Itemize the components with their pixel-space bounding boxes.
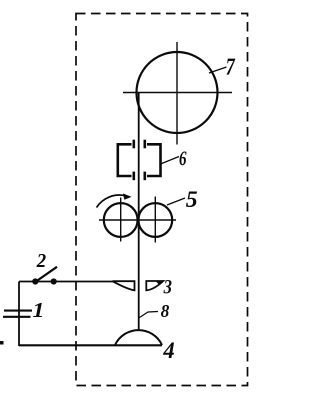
- wire strip 8 (vertical line): [138, 93, 140, 332]
- contact shoe 3 right wedge: [146, 281, 163, 290]
- label 8: [161, 305, 169, 317]
- capacitor 1 top plate: [4, 310, 32, 312]
- label 3: [164, 280, 172, 293]
- leader line to label 6: [161, 157, 180, 165]
- left roller vertical centerline: [120, 198, 122, 242]
- label 2: [37, 254, 46, 267]
- heater bracket 6 left: [118, 140, 134, 181]
- heater bracket 6 right: [145, 140, 161, 181]
- switch 2 left contact dot: [32, 278, 38, 284]
- capacitor 1 bottom plate: [3, 316, 31, 318]
- right roller vertical centerline: [154, 197, 156, 243]
- bottom wire / baseline: [19, 344, 162, 346]
- contact shoe 3 right wedge filled tip: [156, 280, 165, 284]
- scan speck at left edge: [0, 341, 4, 345]
- switch 2 blade: [35, 267, 58, 283]
- drum 7 (large circle): [137, 52, 218, 133]
- rotation arrow over left roller: [97, 195, 126, 207]
- leader line to label 8: [140, 312, 159, 318]
- left vertical wire: [18, 282, 20, 347]
- drum 7 horizontal centerline: [123, 92, 232, 94]
- switch 2 right contact dot: [51, 278, 57, 284]
- leader line to label 7: [209, 67, 227, 73]
- label 4: [163, 343, 174, 359]
- contact shoe 3 left wedge: [113, 281, 135, 290]
- wire from switch to contact shoe: [19, 281, 114, 283]
- label 6: [180, 152, 187, 166]
- roller 5 right circle: [138, 203, 172, 237]
- leader line to label 5: [167, 198, 185, 205]
- roller 5 left circle: [104, 203, 138, 237]
- label 7: [227, 59, 236, 75]
- drum 7 vertical centerline: [176, 42, 178, 145]
- rotation arrowhead: [123, 193, 132, 199]
- label 5: [186, 192, 197, 208]
- dashed enclosure border: [76, 14, 248, 386]
- guide hump 4 (arc): [115, 330, 162, 345]
- rollers horizontal centerline: [99, 219, 176, 221]
- label 1: [33, 303, 42, 317]
